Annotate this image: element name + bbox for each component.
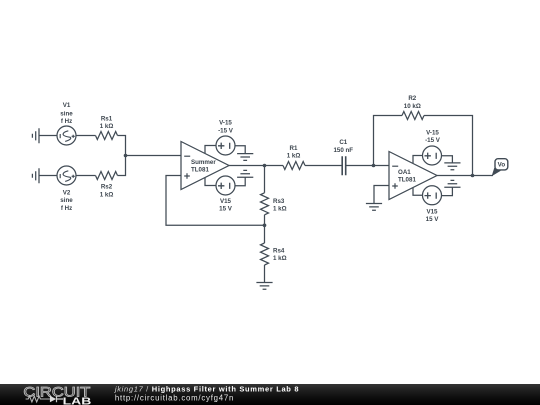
svg-text:V-15: V-15	[219, 120, 232, 127]
battery V-15 (summer positive rail)	[216, 136, 235, 155]
wire R2 to output node D	[424, 116, 473, 176]
svg-text:Rs4: Rs4	[273, 248, 285, 255]
junction node A	[124, 154, 128, 158]
svg-text:Summer: Summer	[191, 159, 216, 166]
wire GND1 to V1	[39, 135, 57, 137]
svg-text:V15: V15	[220, 198, 232, 205]
node flag Vo	[492, 159, 508, 177]
label U2 OA1 TL081	[398, 169, 416, 184]
svg-text:Vo: Vo	[498, 162, 506, 169]
label V1 value	[60, 102, 73, 125]
wire OA1 V+ pin to battery V-15	[413, 156, 423, 164]
svg-text:-15 V: -15 V	[218, 128, 234, 135]
label V15 (OA1)	[426, 209, 440, 223]
resistor Rs4	[261, 225, 269, 282]
label Rs4 value	[273, 248, 287, 263]
ground GND8 (OA1 bottom rail, inverted)	[444, 180, 460, 187]
svg-text:10 kΩ: 10 kΩ	[404, 103, 421, 110]
wire Rs2 to node A	[118, 156, 126, 176]
wire Rs1 to node A	[118, 136, 126, 156]
svg-text:sine: sine	[60, 110, 73, 117]
ground GND1 (left of V1)	[32, 128, 39, 143]
svg-text:1 kΩ: 1 kΩ	[273, 206, 287, 213]
wire V1 to Rs1	[76, 135, 96, 137]
logo diode symbol	[50, 396, 56, 403]
wire summer output to R1	[229, 165, 283, 167]
svg-text:15 V: 15 V	[426, 216, 440, 223]
ground GND3 (summer top rail)	[237, 154, 253, 161]
svg-text:C1: C1	[339, 139, 347, 146]
svg-text:1 kΩ: 1 kΩ	[273, 255, 287, 262]
wire GND2 to V2	[39, 175, 57, 177]
ground GND6 (OA1 + input)	[366, 204, 382, 211]
label V15 (summer)	[219, 198, 233, 213]
voltage source V1 (sine)	[57, 126, 76, 145]
wire V15 to ground	[235, 177, 245, 186]
svg-text:http://circuitlab.com/cyfg47n: http://circuitlab.com/cyfg47n	[115, 394, 234, 403]
svg-text:Rs1: Rs1	[101, 116, 113, 123]
ground GND4 (summer bottom rail, inverted)	[237, 170, 253, 177]
wire C1 to node C	[346, 165, 389, 167]
svg-text:f Hz: f Hz	[61, 118, 72, 125]
wire to ground	[442, 156, 453, 163]
resistor Rs2	[96, 172, 118, 180]
svg-text:R2: R2	[408, 95, 416, 102]
label U1 Summer TL081	[191, 159, 216, 174]
op-amp U1 Summer TL081	[181, 142, 229, 190]
wire node A to summer inverting input	[126, 155, 182, 157]
ground GND7 (OA1 top rail)	[444, 163, 460, 170]
svg-text:TL081: TL081	[191, 167, 209, 174]
wire node C up to R2 feedback	[374, 116, 403, 166]
junction node C (C1 / R2 / OA1 inverting)	[372, 164, 376, 168]
svg-text:sine: sine	[60, 197, 73, 204]
wire V-15 to ground	[235, 146, 245, 154]
svg-text:1 kΩ: 1 kΩ	[287, 153, 301, 160]
label Rs3 value	[273, 198, 287, 213]
label V-15 (summer)	[218, 120, 234, 135]
svg-text:150 nF: 150 nF	[333, 147, 353, 154]
junction summer output / Rs3	[263, 164, 267, 168]
svg-text:1 kΩ: 1 kΩ	[100, 191, 114, 198]
ground GND5 (below Rs4)	[256, 283, 272, 290]
label V2 value	[60, 189, 73, 211]
junction node B (Rs3/Rs4 divider tap)	[263, 223, 267, 227]
svg-text:f Hz: f Hz	[61, 205, 72, 212]
svg-text:V15: V15	[426, 209, 438, 216]
svg-text:V2: V2	[63, 189, 71, 196]
wire summer V+ pin to battery V-15	[205, 146, 216, 154]
ground GND2 (left of V2)	[32, 168, 39, 183]
op-amp U2 OA1 TL081	[389, 152, 437, 200]
svg-text:15 V: 15 V	[219, 206, 233, 213]
svg-text:Rs3: Rs3	[273, 198, 285, 205]
battery V-15 (OA1 positive rail)	[423, 146, 442, 165]
svg-text:LAB: LAB	[63, 396, 92, 405]
svg-text:OA1: OA1	[398, 169, 411, 176]
svg-text:-15 V: -15 V	[425, 137, 441, 144]
resistor R2	[402, 112, 424, 120]
logo resistor zigzag	[26, 396, 50, 402]
label C1 value	[333, 139, 353, 154]
wire OA1 + input to ground	[374, 186, 389, 204]
svg-text:V-15: V-15	[426, 129, 439, 136]
wire to ground	[442, 187, 453, 195]
label Rs1 value	[100, 116, 114, 131]
label Rs2 value	[100, 184, 114, 199]
label R1 value	[287, 145, 301, 160]
svg-text:R1: R1	[290, 145, 298, 152]
resistor Rs1	[96, 132, 118, 140]
svg-text:Rs2: Rs2	[101, 184, 113, 191]
capacitor C1	[342, 156, 346, 175]
wire V2 to Rs2	[76, 175, 96, 177]
label R2 value	[404, 95, 421, 110]
svg-text:1 kΩ: 1 kΩ	[100, 123, 114, 130]
svg-text:TL081: TL081	[398, 177, 416, 184]
battery V15 (OA1 negative rail)	[423, 186, 442, 205]
battery V15 (summer negative rail)	[216, 176, 235, 195]
wire summer V- pin to battery V15	[205, 178, 216, 186]
svg-text:jking17 / Highpass Filter with: jking17 / Highpass Filter with Summer La…	[114, 385, 299, 394]
junction node D (OA1 output / R2)	[471, 174, 475, 178]
wire R1 to C1	[305, 165, 342, 167]
wire OA1 output to Vo	[437, 175, 493, 177]
resistor R1	[283, 162, 305, 170]
resistor Rs3	[261, 166, 269, 226]
wire OA1 V- pin to battery V15	[413, 188, 423, 196]
label V-15 (OA1)	[425, 129, 441, 144]
wire summer + input to divider node B	[166, 176, 265, 226]
voltage source V2 (sine)	[57, 166, 76, 185]
svg-text:V1: V1	[63, 102, 71, 109]
